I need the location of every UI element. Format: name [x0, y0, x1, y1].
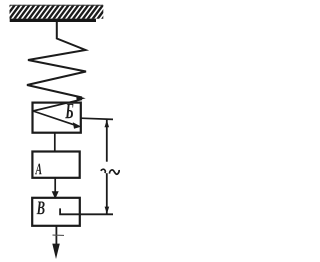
lower arm line in block B	[33, 111, 75, 125]
label Б	[65, 104, 73, 119]
force arrow below block V	[55, 226, 57, 245]
spring	[27, 22, 86, 98]
fixed support hatching	[0, 4, 119, 260]
arrowhead A2 (inside block B right)	[73, 122, 82, 128]
block V (В) box	[32, 198, 80, 226]
label z (rotated) right part	[109, 170, 119, 174]
dimension line lower segment	[106, 173, 108, 213]
block A box	[32, 152, 79, 178]
jog line inside block V + extension line to dimension (bottom)	[60, 208, 113, 214]
dimension arrow down	[105, 207, 110, 214]
upper arm line in block B	[33, 99, 82, 111]
dimension line upper segment	[106, 120, 108, 162]
arrow A to V	[54, 178, 56, 192]
label В	[37, 202, 45, 215]
label A	[35, 164, 42, 175]
support top edge line	[10, 4, 103, 6]
connector B to A	[54, 133, 56, 152]
arrowhead A1 (spring end, top right of block B)	[76, 96, 85, 101]
wall line (thick)	[10, 19, 96, 22]
dimension arrow up	[105, 120, 110, 127]
label z (rotated) left part	[101, 169, 105, 173]
small tick across force arrow	[53, 234, 65, 236]
block B (Б) box	[33, 103, 81, 133]
extension line to dimension (top)	[81, 118, 113, 119]
